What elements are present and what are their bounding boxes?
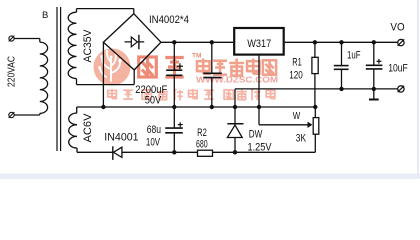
- svg-text:10uF: 10uF: [388, 63, 408, 75]
- svg-text:IN4001: IN4001: [104, 131, 138, 143]
- svg-text:W317: W317: [247, 38, 271, 50]
- svg-text:220VAC: 220VAC: [6, 56, 17, 87]
- svg-text:WWW.DZSC.COM: WWW.DZSC.COM: [196, 75, 278, 85]
- svg-text:W: W: [293, 111, 301, 122]
- svg-text:VO: VO: [390, 21, 405, 33]
- svg-text:TM: TM: [192, 53, 201, 60]
- svg-text:R1: R1: [292, 56, 302, 68]
- svg-text:3K: 3K: [296, 132, 307, 144]
- svg-text:120: 120: [289, 70, 303, 82]
- svg-text:DW: DW: [249, 129, 263, 141]
- svg-text:R2: R2: [197, 127, 207, 139]
- svg-text:AC35V: AC35V: [82, 29, 94, 63]
- svg-text:IN4002*4: IN4002*4: [149, 14, 189, 26]
- svg-text:50V: 50V: [145, 95, 162, 107]
- svg-text:1uF: 1uF: [347, 50, 361, 62]
- svg-text:680: 680: [196, 138, 208, 150]
- svg-text:68u: 68u: [147, 124, 161, 136]
- svg-text:B: B: [42, 10, 48, 21]
- svg-text:10V: 10V: [146, 137, 161, 149]
- svg-text:AC6V: AC6V: [82, 113, 94, 143]
